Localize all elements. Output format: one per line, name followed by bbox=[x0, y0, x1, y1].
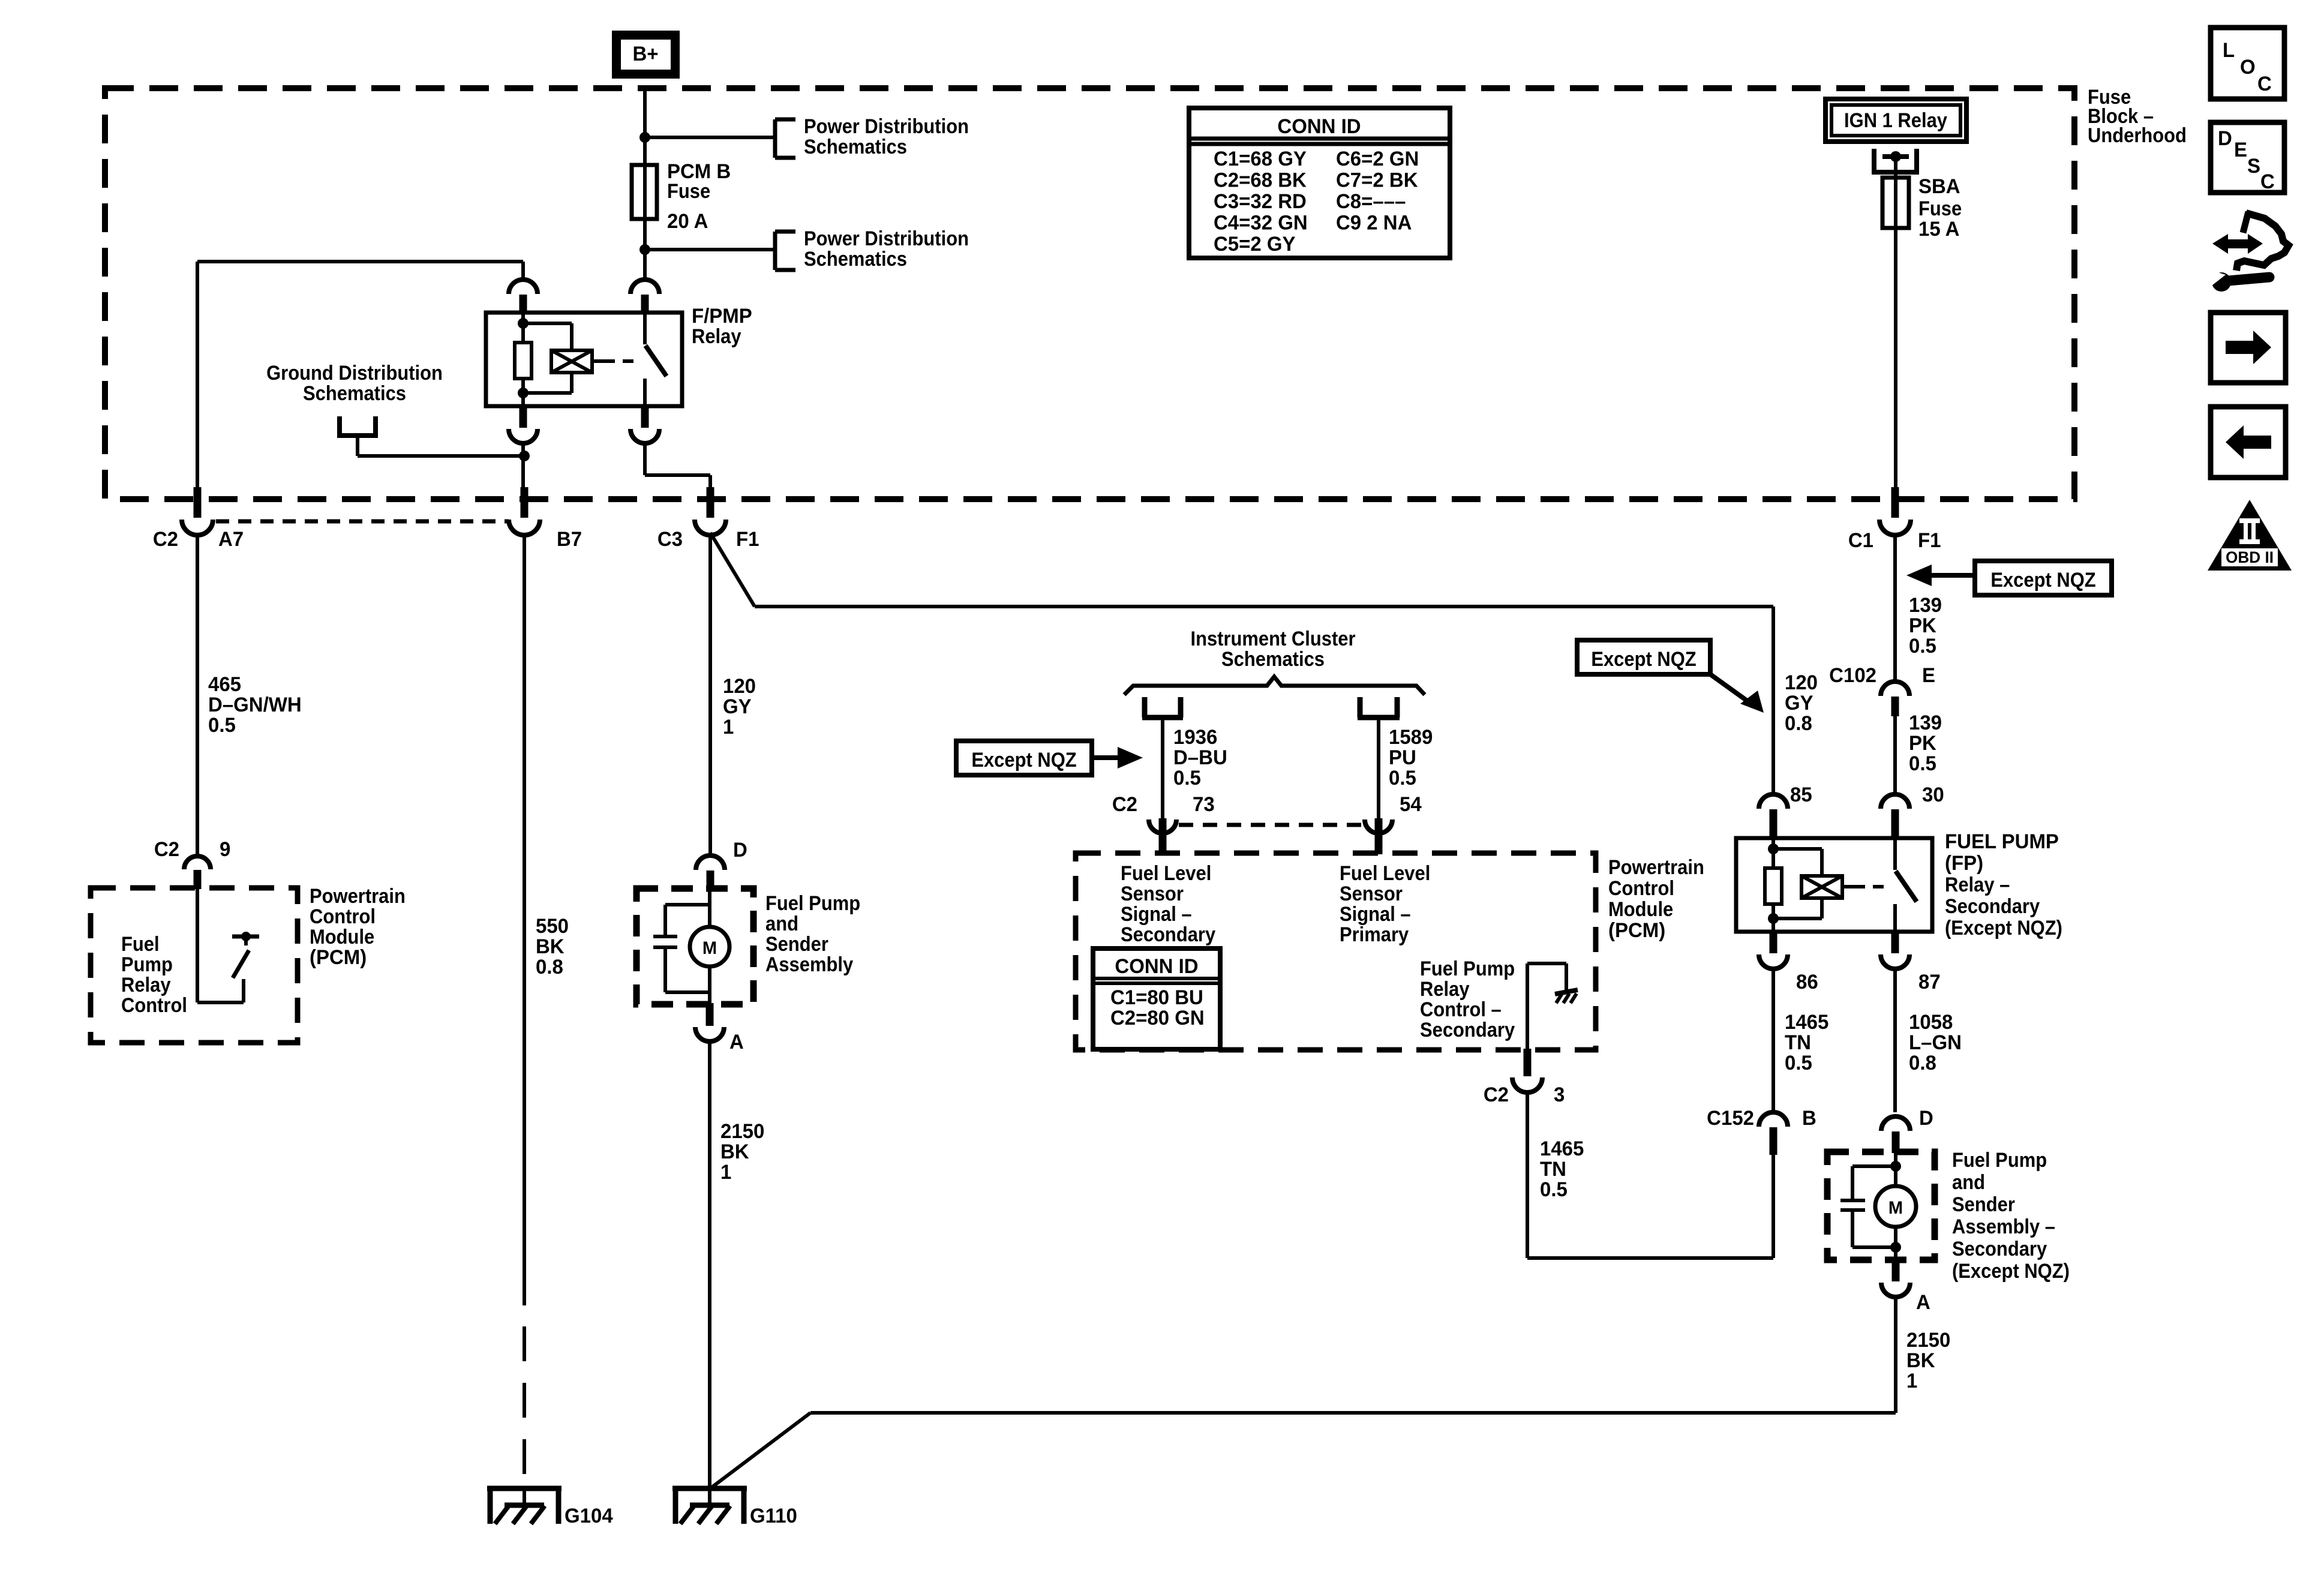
svg-text:C3: C3 bbox=[657, 529, 683, 551]
svg-text:C1: C1 bbox=[1848, 530, 1873, 553]
svg-text:FUEL PUMP: FUEL PUMP bbox=[1945, 831, 2059, 854]
svg-text:(FP): (FP) bbox=[1945, 852, 1983, 875]
svg-text:GY: GY bbox=[1785, 692, 1813, 715]
svg-text:C2=80 GN: C2=80 GN bbox=[1110, 1007, 1205, 1030]
svg-text:PU: PU bbox=[1389, 747, 1416, 770]
svg-text:Except NQZ: Except NQZ bbox=[971, 749, 1076, 772]
svg-text:54: 54 bbox=[1400, 794, 1422, 816]
svg-text:B+: B+ bbox=[632, 43, 658, 66]
svg-text:Fuel Pump: Fuel Pump bbox=[1952, 1149, 2047, 1172]
svg-text:Powertrain: Powertrain bbox=[310, 885, 406, 908]
svg-text:465: 465 bbox=[208, 674, 241, 697]
svg-text:(Except NQZ): (Except NQZ) bbox=[1945, 917, 2062, 939]
svg-text:Power Distribution: Power Distribution bbox=[804, 115, 969, 138]
svg-text:C: C bbox=[2260, 171, 2275, 194]
svg-text:Secondary: Secondary bbox=[1420, 1019, 1515, 1041]
svg-text:C4=32 GN: C4=32 GN bbox=[1214, 212, 1308, 235]
svg-text:Relay: Relay bbox=[692, 325, 741, 348]
svg-text:Except NQZ: Except NQZ bbox=[1591, 648, 1696, 671]
svg-text:Sensor: Sensor bbox=[1340, 882, 1403, 905]
svg-text:120: 120 bbox=[1785, 672, 1818, 695]
svg-text:9: 9 bbox=[220, 839, 230, 861]
svg-text:Ground Distribution: Ground Distribution bbox=[266, 362, 443, 385]
svg-text:Assembly: Assembly bbox=[765, 953, 853, 976]
svg-text:A: A bbox=[729, 1031, 744, 1054]
svg-text:(Except NQZ): (Except NQZ) bbox=[1952, 1260, 2070, 1283]
svg-text:Schematics: Schematics bbox=[303, 382, 406, 405]
svg-text:GY: GY bbox=[723, 696, 752, 719]
svg-text:1: 1 bbox=[720, 1161, 731, 1184]
svg-text:0.5: 0.5 bbox=[208, 715, 236, 737]
svg-text:1936: 1936 bbox=[1173, 727, 1217, 749]
svg-text:Underhood: Underhood bbox=[2088, 124, 2187, 147]
svg-text:C2=68 BK: C2=68 BK bbox=[1214, 169, 1307, 192]
svg-text:Pump: Pump bbox=[121, 953, 173, 976]
svg-text:and: and bbox=[1952, 1171, 1985, 1194]
svg-text:0.5: 0.5 bbox=[1173, 767, 1201, 790]
svg-text:Except NQZ: Except NQZ bbox=[1990, 569, 2095, 592]
svg-text:0.5: 0.5 bbox=[1909, 753, 1936, 776]
svg-text:Schematics: Schematics bbox=[804, 248, 907, 271]
svg-text:M: M bbox=[1888, 1198, 1903, 1218]
svg-text:Signal –: Signal – bbox=[1340, 903, 1411, 926]
svg-text:C9 2 NA: C9 2 NA bbox=[1336, 212, 1412, 235]
svg-text:1: 1 bbox=[1906, 1370, 1917, 1393]
svg-text:0.8: 0.8 bbox=[536, 956, 563, 979]
svg-text:M: M bbox=[702, 938, 717, 958]
svg-text:1465: 1465 bbox=[1540, 1138, 1584, 1161]
svg-text:Sender: Sender bbox=[1952, 1193, 2015, 1216]
svg-text:Relay: Relay bbox=[121, 974, 171, 996]
svg-text:Sender: Sender bbox=[765, 933, 828, 956]
svg-text:0.5: 0.5 bbox=[1540, 1179, 1568, 1202]
svg-text:B: B bbox=[1802, 1107, 1816, 1130]
svg-text:TN: TN bbox=[1540, 1158, 1566, 1181]
svg-text:Schematics: Schematics bbox=[1221, 648, 1325, 671]
svg-text:C2: C2 bbox=[153, 529, 178, 551]
svg-text:C7=2 BK: C7=2 BK bbox=[1336, 169, 1418, 192]
svg-text:F/PMP: F/PMP bbox=[692, 305, 752, 328]
svg-text:15 A: 15 A bbox=[1918, 218, 1959, 241]
svg-text:A: A bbox=[1916, 1292, 1930, 1314]
svg-text:C5=2 GY: C5=2 GY bbox=[1214, 233, 1296, 256]
svg-text:Secondary: Secondary bbox=[1952, 1238, 2047, 1260]
svg-text:Power Distribution: Power Distribution bbox=[804, 227, 969, 250]
svg-text:Secondary: Secondary bbox=[1121, 923, 1215, 946]
svg-text:139: 139 bbox=[1909, 712, 1942, 735]
svg-text:Module: Module bbox=[310, 926, 374, 948]
svg-text:BK: BK bbox=[536, 936, 565, 959]
svg-text:Instrument Cluster: Instrument Cluster bbox=[1190, 628, 1355, 650]
svg-text:L: L bbox=[2223, 40, 2235, 62]
svg-text:Fuel Pump: Fuel Pump bbox=[1420, 957, 1515, 980]
svg-text:G110: G110 bbox=[750, 1505, 797, 1528]
svg-text:85: 85 bbox=[1790, 784, 1812, 807]
svg-text:TN: TN bbox=[1785, 1032, 1811, 1055]
svg-text:OBD II: OBD II bbox=[2226, 548, 2274, 566]
svg-text:BK: BK bbox=[720, 1141, 749, 1164]
svg-text:0.5: 0.5 bbox=[1389, 767, 1416, 790]
svg-text:73: 73 bbox=[1193, 794, 1215, 816]
svg-text:2150: 2150 bbox=[720, 1121, 764, 1143]
svg-text:G104: G104 bbox=[565, 1505, 613, 1528]
svg-text:Fuel: Fuel bbox=[121, 933, 160, 956]
svg-text:C1=68 GY: C1=68 GY bbox=[1214, 148, 1307, 171]
svg-text:Module: Module bbox=[1608, 898, 1673, 921]
svg-text:A7: A7 bbox=[218, 529, 244, 551]
svg-text:C102: C102 bbox=[1829, 665, 1876, 688]
svg-text:D–GN/WH: D–GN/WH bbox=[208, 694, 302, 717]
svg-text:0.5: 0.5 bbox=[1785, 1052, 1812, 1075]
svg-text:Relay: Relay bbox=[1420, 978, 1470, 1001]
svg-text:3: 3 bbox=[1554, 1084, 1565, 1107]
svg-text:D: D bbox=[1919, 1107, 1933, 1130]
svg-text:L–GN: L–GN bbox=[1909, 1032, 1962, 1055]
svg-text:550: 550 bbox=[536, 915, 569, 938]
svg-text:C2: C2 bbox=[154, 839, 179, 861]
svg-text:C8=–––: C8=––– bbox=[1336, 191, 1406, 214]
svg-text:C6=2 GN: C6=2 GN bbox=[1336, 148, 1419, 171]
svg-text:Control: Control bbox=[310, 905, 376, 928]
svg-text:E: E bbox=[2234, 139, 2247, 162]
svg-text:Control: Control bbox=[1608, 877, 1674, 900]
svg-text:30: 30 bbox=[1922, 784, 1944, 807]
svg-text:D: D bbox=[2218, 128, 2232, 151]
svg-text:Schematics: Schematics bbox=[804, 136, 907, 158]
svg-text:BK: BK bbox=[1906, 1350, 1935, 1373]
svg-text:Signal –: Signal – bbox=[1121, 903, 1192, 926]
svg-text:Fuel Pump: Fuel Pump bbox=[765, 892, 860, 915]
svg-text:20 A: 20 A bbox=[667, 211, 708, 233]
svg-text:87: 87 bbox=[1918, 971, 1941, 994]
svg-text:Fuel Level: Fuel Level bbox=[1340, 862, 1430, 885]
svg-text:E: E bbox=[1922, 665, 1935, 688]
svg-text:Control –: Control – bbox=[1420, 998, 1502, 1021]
svg-text:C1=80 BU: C1=80 BU bbox=[1110, 987, 1203, 1010]
svg-text:SBA: SBA bbox=[1918, 176, 1960, 199]
svg-text:2150: 2150 bbox=[1906, 1329, 1950, 1352]
svg-text:86: 86 bbox=[1796, 971, 1818, 994]
svg-text:Assembly –: Assembly – bbox=[1952, 1215, 2055, 1238]
svg-text:Control: Control bbox=[121, 994, 187, 1017]
svg-text:PK: PK bbox=[1909, 615, 1936, 638]
svg-text:C152: C152 bbox=[1707, 1107, 1754, 1130]
svg-text:Sensor: Sensor bbox=[1121, 882, 1184, 905]
svg-text:Fuse: Fuse bbox=[667, 180, 710, 203]
svg-text:Relay –: Relay – bbox=[1945, 873, 2010, 896]
svg-text:C3=32 RD: C3=32 RD bbox=[1214, 191, 1307, 214]
svg-text:CONN ID: CONN ID bbox=[1115, 956, 1198, 978]
svg-text:F1: F1 bbox=[736, 529, 759, 551]
svg-text:0.8: 0.8 bbox=[1785, 713, 1812, 736]
svg-text:S: S bbox=[2247, 155, 2260, 178]
svg-text:1589: 1589 bbox=[1389, 727, 1433, 749]
svg-text:(PCM): (PCM) bbox=[1608, 920, 1665, 942]
svg-text:Secondary: Secondary bbox=[1945, 895, 2040, 918]
svg-text:0.8: 0.8 bbox=[1909, 1052, 1936, 1075]
svg-text:(PCM): (PCM) bbox=[310, 947, 367, 969]
svg-text:120: 120 bbox=[723, 676, 756, 698]
svg-text:IGN 1 Relay: IGN 1 Relay bbox=[1844, 109, 1947, 132]
svg-text:Fuel Level: Fuel Level bbox=[1121, 862, 1211, 885]
svg-text:Fuse: Fuse bbox=[1918, 197, 1962, 220]
svg-text:C2: C2 bbox=[1112, 794, 1137, 816]
svg-text:139: 139 bbox=[1909, 595, 1942, 617]
svg-text:CONN ID: CONN ID bbox=[1277, 116, 1361, 139]
svg-text:O: O bbox=[2240, 56, 2256, 79]
svg-text:F1: F1 bbox=[1918, 530, 1941, 553]
svg-text:1: 1 bbox=[723, 716, 734, 739]
svg-text:Powertrain: Powertrain bbox=[1608, 856, 1704, 879]
svg-text:D: D bbox=[733, 839, 747, 862]
svg-text:D–BU: D–BU bbox=[1173, 747, 1227, 770]
svg-text:and: and bbox=[765, 912, 798, 935]
svg-text:1465: 1465 bbox=[1785, 1011, 1828, 1034]
svg-text:C: C bbox=[2257, 73, 2272, 96]
svg-text:Primary: Primary bbox=[1340, 923, 1409, 946]
svg-text:PK: PK bbox=[1909, 733, 1936, 755]
svg-text:0.5: 0.5 bbox=[1909, 635, 1936, 658]
svg-text:1058: 1058 bbox=[1909, 1011, 1953, 1034]
svg-text:B7: B7 bbox=[557, 529, 582, 551]
svg-text:C2: C2 bbox=[1484, 1084, 1509, 1107]
